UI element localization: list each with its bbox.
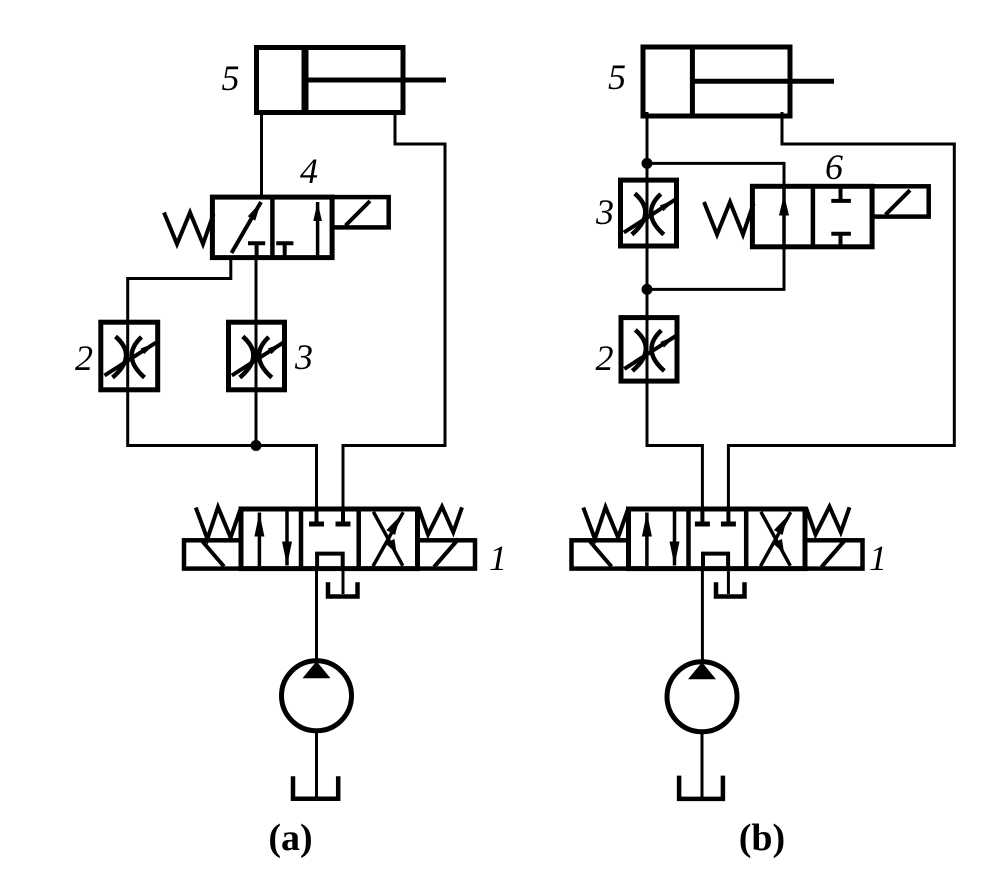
valve 1 body (a) [241,509,418,569]
valve 1 centre blocked port B (b) [721,509,736,524]
valve 1 centre bottom port box (a) [317,554,343,569]
valve 1 right spring (b) [806,507,850,535]
label 1 (b) [869,538,887,578]
cylinder 5 (b) [643,47,834,116]
valve 6 spring [704,202,754,235]
svg-text:(b): (b) [739,817,785,859]
valve 1 tank stub wire (a) [342,569,345,594]
cylinder 5 (a) [257,48,447,113]
svg-text:4: 4 [300,151,318,191]
svg-text:6: 6 [825,147,843,187]
wire valve-6 outlet to junction-bottom [647,247,784,290]
label 6 [825,147,843,187]
wire valve-1b to pump [701,569,704,662]
svg-text:2: 2 [596,338,614,378]
svg-text:1: 1 [489,538,507,578]
valve 1 left-position up arrow (a) [254,513,264,567]
valve 1 right spring (a) [419,507,463,535]
wire cylinder-5a left port to valve-4 [260,112,263,198]
wire pump-b to tank [701,732,704,797]
valve 1 right solenoid (b) [805,539,863,569]
tank (a) [293,776,338,799]
valve 1 tank stub wire (b) [727,569,730,594]
wire pump-a to tank [315,731,318,797]
valve 1 left-position up arrow (b) [642,513,652,567]
valve 1 tank symbol (a) [328,582,358,596]
label 1 (a) [489,538,507,578]
label 4 [300,151,318,191]
valve 1 centre blocked port B (a) [336,509,351,524]
valve 1 body (b) [629,509,806,569]
valve 1 left solenoid (b) [572,540,629,568]
valve 1 tank symbol (b) [716,582,745,596]
wire cylinder-5a right port to valve-1 port B [343,112,445,509]
pump (a) [282,661,352,731]
label (b) [739,817,785,859]
valve 6 right-position blocked port top [831,186,851,201]
svg-text:5: 5 [222,58,240,98]
label 5 (b) [608,57,626,97]
valve 1 left solenoid (a) [184,540,241,568]
label 3 (a) [294,337,313,377]
valve 1 centre blocked port A (a) [309,509,324,524]
svg-text:3: 3 [294,337,313,377]
label (a) [268,817,312,859]
valve 1 right-position cross arrow down (b) [761,512,790,566]
valve 1 left spring (a) [196,507,241,539]
valve 4 left-position blocked port [248,243,265,257]
valve 6 right-position blocked port bottom [831,234,851,247]
label 5 (a) [222,58,240,98]
junction node bottom (b) [642,284,653,295]
valve 4 spring [164,213,214,245]
valve 1 left-position down arrow (b) [670,512,680,566]
wire valve-4 left port to throttle-2 and valve-1 port A [128,258,317,509]
junction node (a) [251,440,262,451]
valve 1 left spring (b) [583,507,628,539]
svg-text:2: 2 [75,338,93,378]
wire junction-top to valve-6 inlet [647,163,784,186]
throttle valve 3 (b) [621,180,677,246]
valve 6 body [752,186,872,247]
valve 1 right-position cross arrow up (b) [761,512,791,566]
tank (b) [679,776,723,799]
label 3 (b) [595,192,614,232]
valve 1 right solenoid (a) [418,539,476,569]
svg-text:5: 5 [608,57,626,97]
valve 6 left-position through arrow [779,186,789,247]
valve 4 solenoid [332,197,389,227]
junction node top (b) [642,158,653,169]
svg-text:(a): (a) [268,817,312,859]
throttle valve 3 (a) [229,322,285,390]
valve 6 solenoid [872,186,929,216]
valve 1 centre blocked port A (b) [695,509,710,524]
throttle valve 2 (a) [101,322,158,390]
valve 4 right-position up arrow [313,202,322,258]
wire valve-1a to pump [315,569,318,661]
wire valve-4 mid port through throttle-3 to junction [255,258,258,446]
valve 1 centre bottom port box (b) [703,554,728,569]
valve 4 left-position diagonal arrow [232,202,262,253]
label 2 (a) [75,338,93,378]
valve 4 body [212,197,332,258]
pump (b) [667,662,737,732]
svg-text:3: 3 [595,192,614,232]
throttle valve 2 (b) [621,318,677,382]
valve 1 right-position cross arrow down (a) [373,512,402,566]
wire cylinder-5b right port to valve-1 port B [728,112,954,509]
valve 1 right-position cross arrow up (a) [373,512,403,566]
svg-text:1: 1 [869,538,887,578]
valve 4 right-position blocked port [276,243,293,257]
valve 1 left-position down arrow (a) [282,512,292,566]
label 2 (b) [596,338,614,378]
wire cylinder-5b left port through throttles to valve-1 port A [647,112,702,509]
